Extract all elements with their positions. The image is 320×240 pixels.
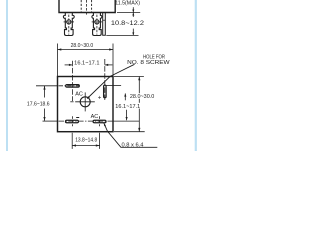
bottom dimension 13.8~14.8: dimension line with arrows bbox=[72, 144, 99, 146]
plan view: + slot vertical centerline / extension bbox=[104, 59, 106, 100]
minus polarity mark bbox=[76, 117, 79, 119]
svg-text:28.0~30.0: 28.0~30.0 bbox=[130, 94, 154, 100]
side view: right lug hole bbox=[95, 20, 99, 24]
svg-text:17.6~18.6: 17.6~18.6 bbox=[27, 102, 50, 108]
plan view: top-left slot vertical centerline / extension bbox=[71, 61, 73, 101]
plan view: AC terminal slot top-left bbox=[66, 85, 80, 88]
side view: hidden hole line left bbox=[80, 0, 82, 12]
right dimension 28.0~30.0: top extension line bbox=[114, 76, 144, 78]
dimension 11.5(MAX) arrow down to body bottom bbox=[132, 7, 134, 12]
top dimension 16.1~17.1: arrows outside pointing in bbox=[65, 64, 113, 66]
svg-text:10.8~12.2: 10.8~12.2 bbox=[111, 20, 145, 27]
dimension 10.8~12.2 arrow down to lug bottom bbox=[132, 29, 134, 36]
leader line to hole bbox=[87, 64, 135, 99]
plan view: top slot centerline horizontal bbox=[36, 85, 58, 87]
svg-text:11.5(MAX): 11.5(MAX) bbox=[115, 1, 140, 7]
side view: left lug vertical centerline bbox=[68, 15, 70, 35]
svg-text:13.8~14.8: 13.8~14.8 bbox=[75, 137, 97, 143]
top dimension 28.0~30.0: extension lines bbox=[57, 44, 59, 77]
svg-text:28.0~30.0: 28.0~30.0 bbox=[71, 43, 94, 49]
side view: left lug hole bbox=[67, 20, 71, 24]
right dimension 28.0~30.0: dimension line with arrows bbox=[138, 77, 140, 132]
side view: package body bbox=[59, 0, 115, 13]
plan view: + terminal slot (vertical) top-right bbox=[104, 85, 107, 98]
svg-text:NO. 8 SCREW: NO. 8 SCREW bbox=[127, 60, 170, 66]
leader line 0.8 x 6.4 to bottom-right slot bbox=[104, 123, 157, 147]
svg-text:16.1~17.1: 16.1~17.1 bbox=[74, 60, 99, 66]
plan view: hole vertical centerline bbox=[84, 92, 86, 111]
right dimension 16.1~17.1: top extension line bbox=[107, 84, 122, 86]
svg-text:AC: AC bbox=[75, 91, 83, 97]
left blue border line bbox=[6, 0, 8, 151]
side view: hole centerline bbox=[85, 0, 87, 16]
side view: right terminal lug outline bbox=[92, 13, 102, 36]
side view: extension line at lug bottom right bbox=[106, 34, 138, 36]
top dimension 28.0~30.0: dimension line with arrows bbox=[58, 48, 114, 50]
plan view: bottom-left slot vertical centerline stub bbox=[72, 116, 74, 126]
right dimension 28.0~30.0: bottom extension line bbox=[114, 131, 145, 133]
svg-text:0.8 x 6.4: 0.8 x 6.4 bbox=[122, 142, 144, 148]
plan view: minus terminal slot bottom-left bbox=[66, 120, 79, 123]
plan view: hole horizontal centerline bbox=[75, 101, 95, 103]
side view: right lug vertical centerline bbox=[96, 15, 98, 35]
svg-text:16.1~17.1: 16.1~17.1 bbox=[115, 104, 140, 110]
side view: left terminal lug outline bbox=[63, 13, 74, 36]
plan view: bottom-right slot vertical centerline stub bbox=[99, 116, 101, 126]
right blue border line bbox=[195, 0, 197, 151]
left dimension 17.6~18.6: dimension line with arrows bbox=[43, 86, 45, 121]
dimension 10.8~12.2 arrow up to body bottom bbox=[132, 13, 134, 17]
plan view: package square bbox=[58, 77, 114, 132]
side view: extension line at body bottom right bbox=[117, 12, 140, 14]
side view: left lug hole horizontal centerline bbox=[64, 21, 74, 23]
plan view: AC terminal slot bottom-right bbox=[93, 120, 106, 123]
side view: edge-on lug bar bbox=[103, 13, 106, 36]
side view: edge-on lug hole tick bbox=[103, 19, 106, 21]
plan view: center mounting hole bbox=[80, 97, 90, 107]
plan view: bottom slots centerline horizontal bbox=[43, 120, 58, 122]
side view: right lug hole horizontal centerline bbox=[92, 21, 102, 23]
right dimension 16.1~17.1: up arrow bbox=[124, 93, 126, 100]
svg-text:+: + bbox=[98, 94, 102, 101]
bottom dimension 13.8~14.8: extension lines bbox=[71, 133, 73, 149]
right dimension 16.1~17.1: down arrow bbox=[126, 110, 128, 120]
svg-text:AC: AC bbox=[91, 114, 99, 120]
side view: hidden hole line right bbox=[91, 0, 93, 12]
